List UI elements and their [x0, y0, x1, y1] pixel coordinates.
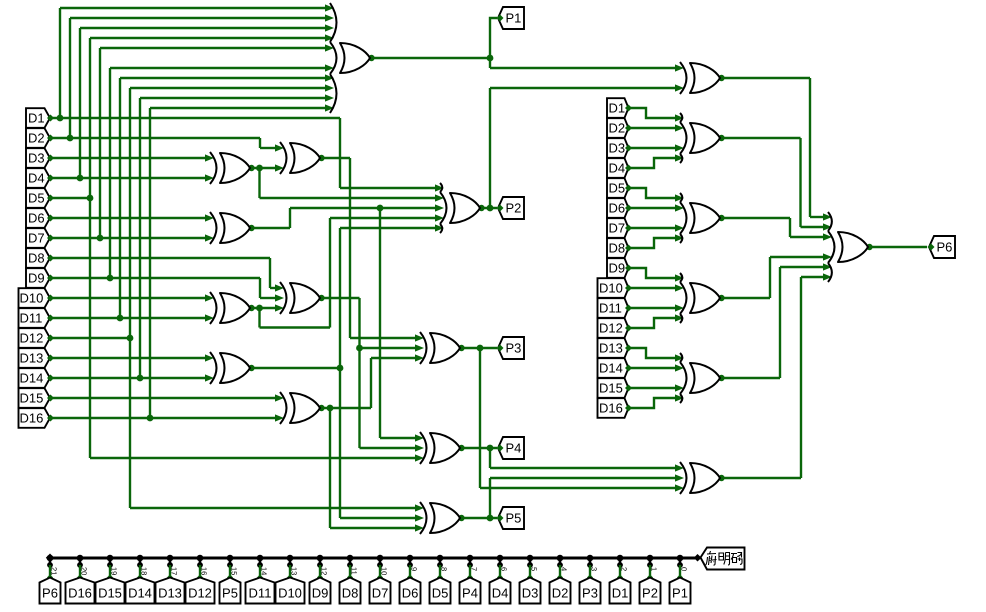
wire D14 straight: [629, 367, 677, 369]
pin D15 terminal pin: [107, 574, 113, 580]
XOR gate P3 (3-in): [430, 333, 460, 363]
wire C2 output: [320, 297, 360, 299]
wire D8 to x270: [50, 257, 270, 259]
wire D3 to gate A: [50, 157, 206, 159]
wire Eout rise x371: [370, 358, 372, 408]
svg-text:13: 13: [290, 567, 299, 575]
wire stub D6: [409, 565, 411, 577]
pin arrow final in3: [823, 233, 832, 240]
svg-text:14: 14: [260, 567, 269, 575]
wire stub D5: [439, 565, 441, 577]
wire R5 output: [720, 477, 801, 479]
junction D16/x150: [147, 415, 154, 422]
pin D12 terminal pin: [197, 574, 203, 580]
terminal port P1: [670, 578, 691, 604]
port D11 (right column): [598, 298, 629, 318]
XOR gate R2 (4-in): [690, 203, 720, 233]
output dot P5 gate: [458, 515, 464, 521]
svg-text:D7: D7: [372, 586, 389, 601]
port D9 (left column): [26, 268, 50, 288]
bus tap D15: [107, 555, 114, 562]
pin arrow R0 in1: [675, 64, 684, 71]
svg-text:D16: D16: [68, 586, 92, 601]
output dot P2 gate: [478, 205, 484, 211]
pin arrow P2 in3: [435, 204, 444, 211]
pin arrow D in1: [205, 354, 214, 361]
pin P4 terminal pin: [467, 574, 473, 580]
wire D11 riser x120: [119, 78, 121, 318]
wire C2out to P3 gate y348: [360, 347, 417, 349]
terminal port D12: [186, 578, 215, 604]
svg-text:D1: D1: [28, 111, 45, 126]
wire D9 riser x110: [109, 68, 111, 278]
XOR gate B: [220, 213, 250, 243]
bus tap D2: [557, 555, 564, 562]
junction Dout/x340: [337, 365, 344, 372]
svg-text:20: 20: [80, 567, 89, 575]
wire Cout drop x259: [258, 308, 260, 328]
wire D14 to gate D: [50, 377, 206, 379]
port D12 (left column): [19, 328, 51, 348]
bus tap D12: [197, 555, 204, 562]
pin arrow C in2: [205, 314, 214, 321]
svg-text:D14: D14: [599, 361, 623, 376]
wire D1 riser x60: [59, 8, 61, 118]
wire P2 riser x490: [489, 88, 491, 208]
wire A2out to P3 gate y338: [350, 337, 416, 339]
svg-text:D10: D10: [20, 291, 44, 306]
wire D1 to x340: [50, 117, 340, 119]
svg-text:D4: D4: [492, 586, 509, 601]
wire R3 output: [720, 297, 770, 299]
wire D12 to x130: [50, 337, 130, 339]
junction D5/x90: [87, 195, 94, 202]
wire P1 gate input y68: [110, 67, 326, 69]
wire D2 straight: [629, 127, 677, 129]
pin arrow P1 in10: [325, 104, 334, 111]
wire Dout to P5 gate y518: [340, 517, 416, 519]
pin arrow P2 in1: [435, 184, 444, 191]
wire P5 rise x490: [489, 478, 491, 518]
svg-text:D16: D16: [20, 411, 44, 426]
port D14 (right column): [598, 358, 629, 378]
wire P1 gate input y98: [140, 97, 326, 99]
wire R4 to final y267: [780, 266, 824, 268]
pin D9 terminal pin: [317, 574, 323, 580]
svg-text:P2: P2: [642, 586, 658, 601]
pin D9 pin: [47, 275, 54, 282]
wire D1 jog: [629, 108, 677, 118]
svg-text:P4: P4: [506, 441, 522, 456]
pin D7 pin: [47, 235, 54, 242]
svg-text:D13: D13: [599, 341, 623, 356]
port D13 (left column): [19, 348, 51, 368]
terminal port P3: [580, 578, 601, 604]
pin arrow final in1: [823, 213, 832, 220]
port P4: [498, 437, 524, 459]
wire R1 drop x800: [799, 138, 801, 227]
svg-text:D5: D5: [609, 181, 626, 196]
output dot gate R5: [718, 475, 724, 481]
pin D9 pin: [625, 265, 632, 272]
terminal port D16: [66, 578, 95, 604]
wire P3 output: [460, 347, 497, 349]
pin arrow P5 in2: [415, 514, 424, 521]
terminal port D7: [370, 578, 391, 604]
svg-text:P5: P5: [222, 586, 238, 601]
port D6 (right column): [607, 198, 629, 218]
wire D1 to P2 gate y188: [340, 187, 436, 189]
wire D11 to gate C: [50, 317, 206, 319]
pin arrow R in D12: [675, 314, 684, 321]
wire Dout column x340: [339, 228, 341, 518]
bus tap P5: [227, 555, 234, 562]
wire D output: [250, 367, 340, 369]
pin arrow A2 in1: [275, 144, 284, 151]
terminal port D4: [490, 578, 511, 604]
wire D16 jog: [629, 398, 677, 408]
wire D7 riser x100: [99, 48, 101, 238]
pin arrow R in D3: [675, 144, 684, 151]
pin arrow A in2: [205, 174, 214, 181]
junction P1 junction: [487, 55, 494, 62]
XOR gate R0: [690, 63, 720, 93]
pin arrow R5 in1: [675, 464, 684, 471]
junction D14/x140: [137, 375, 144, 382]
wire stub P3: [589, 565, 591, 577]
pin arrow B in1: [205, 214, 214, 221]
pin D16 pin: [47, 415, 54, 422]
svg-text:3: 3: [590, 567, 599, 571]
pin arrow P1 in5: [325, 44, 334, 51]
pin arrow P2 in2: [435, 194, 444, 201]
pin D6 pin: [625, 205, 632, 212]
wire stub D9: [319, 565, 321, 577]
port D4 (right column): [607, 158, 629, 178]
wire R2 drop x790: [789, 218, 791, 237]
svg-text:D9: D9: [609, 261, 626, 276]
svg-text:D13: D13: [158, 586, 182, 601]
port D5 (right column): [607, 178, 629, 198]
wire C output to C2: [250, 307, 276, 309]
output dot gate C: [248, 305, 254, 311]
wire P4 drop x490: [489, 448, 491, 468]
wire D15 straight: [629, 387, 677, 389]
pin arrow R in D1: [675, 114, 684, 121]
port D10 (right column): [598, 278, 629, 298]
junction D12/x130: [127, 335, 134, 342]
pin arrow R5 in2: [675, 474, 684, 481]
pin arrow P1 in8: [325, 84, 334, 91]
port D3 (right column): [607, 138, 629, 158]
svg-text:P3: P3: [582, 586, 598, 601]
port D8 (left column): [26, 248, 50, 268]
wire D15 to gate E: [50, 397, 276, 399]
pin D13 pin: [625, 345, 632, 352]
port P6: [929, 236, 955, 258]
pin arrow P2 in5: [435, 224, 444, 231]
bus tap P1: [677, 555, 684, 562]
pin arrow P4 in2: [415, 444, 424, 451]
pin D5 pin: [47, 195, 54, 202]
bus terminal pin: [694, 554, 702, 562]
pin P3 pin: [497, 345, 504, 352]
junction D2/x70: [67, 135, 74, 142]
port D9 (right column): [607, 258, 629, 278]
XOR gate P6 (6-in): [838, 232, 868, 262]
XOR gate P4 (3-in): [430, 433, 460, 463]
wire P1 to R0 gate y68: [490, 67, 676, 69]
wire stub P1: [679, 565, 681, 577]
wire D9 jog: [629, 268, 677, 278]
svg-text:D10: D10: [278, 586, 302, 601]
terminal port D11: [246, 578, 275, 604]
output dot P4 gate: [458, 445, 464, 451]
pin D1 pin: [625, 105, 632, 112]
wire D5 to x90: [50, 197, 90, 199]
wire R5 rise x801: [800, 277, 802, 478]
pin D1 terminal pin: [617, 574, 623, 580]
wire D5 column x90: [89, 38, 91, 458]
output dot gate A2: [318, 155, 324, 161]
wire P4 to R5 gate y468: [490, 467, 676, 469]
wire R0 output: [720, 77, 810, 79]
port D5 (left column): [26, 188, 50, 208]
wire P1 gate input y28: [80, 27, 326, 29]
wire Cout rise x330: [329, 218, 331, 328]
wire R1 output: [720, 137, 801, 139]
pin arrow final in2: [823, 223, 832, 230]
wire P1 gate input y78: [120, 77, 326, 79]
wire P5 output: [460, 517, 497, 519]
pin D4 terminal pin: [497, 574, 503, 580]
output dot gate C2: [318, 295, 324, 301]
pin arrow P1 in7: [325, 74, 334, 81]
port D14 (left column): [19, 368, 51, 388]
wire stub D13: [169, 565, 171, 577]
wire stub D3: [529, 565, 531, 577]
pin D2 pin: [625, 125, 632, 132]
output dot gate D: [248, 365, 254, 371]
pin D14 pin: [625, 365, 632, 372]
svg-text:D3: D3: [28, 151, 45, 166]
svg-text:P2: P2: [506, 201, 522, 216]
junction D4/x80: [77, 175, 84, 182]
wire D14 riser x140: [139, 98, 141, 378]
port D12 (right column): [598, 318, 629, 338]
svg-text:D11: D11: [20, 311, 43, 326]
bus tap P2: [647, 555, 654, 562]
pin D16 terminal pin: [77, 574, 83, 580]
wire P5 to R5 gate y478: [490, 477, 676, 479]
wire D10 to gate C: [50, 297, 206, 299]
wire Bout drop x380: [379, 208, 381, 438]
pin arrow C2 in2: [275, 294, 284, 301]
svg-text:D12: D12: [188, 586, 212, 601]
svg-text:D14: D14: [20, 371, 44, 386]
wire D3 straight: [629, 147, 677, 149]
svg-text:17: 17: [170, 567, 179, 575]
output dot gate R1: [718, 135, 724, 141]
pin P6 terminal pin: [47, 574, 53, 580]
pin D3 pin: [47, 155, 54, 162]
pin arrow P1 in9: [325, 94, 334, 101]
svg-text:D9: D9: [28, 271, 45, 286]
pin arrow R in D9: [675, 274, 684, 281]
junction P5 junction: [487, 515, 494, 522]
wire stub D16: [79, 565, 81, 577]
wire P6 output wire: [868, 246, 927, 248]
wire D12 column x130: [129, 88, 131, 508]
pin arrow C2 in1: [275, 284, 284, 291]
svg-text:D6: D6: [402, 586, 419, 601]
port D10 (left column): [19, 288, 51, 308]
svg-text:D7: D7: [609, 221, 626, 236]
wire D7 to gate B: [50, 237, 206, 239]
pin arrow final in4: [823, 253, 832, 260]
svg-text:D3: D3: [609, 141, 626, 156]
wire D12 jog: [629, 318, 677, 328]
wire D9 drop x260: [259, 278, 261, 298]
bus tap D11: [257, 555, 264, 562]
wire E output: [320, 407, 371, 409]
XOR gate D: [220, 353, 250, 383]
pin D14 pin: [47, 375, 54, 382]
junction Aout branch: [256, 165, 263, 172]
wire A2out drop x350: [349, 158, 351, 338]
pin D15 pin: [47, 395, 54, 402]
pin arrow R in D10: [675, 284, 684, 291]
label box (hai ming ma): [701, 548, 745, 570]
XOR gate E: [290, 393, 320, 423]
pin D8 pin: [47, 255, 54, 262]
terminal port D9: [310, 578, 331, 604]
bus tap D14: [137, 555, 144, 562]
wire stub D2: [559, 565, 561, 577]
wire D10 straight: [629, 287, 677, 289]
bus tap D3: [527, 555, 534, 562]
port P2: [498, 197, 524, 219]
svg-text:P3: P3: [506, 341, 522, 356]
wire D5 to P4 gate y458: [90, 457, 416, 459]
wire P2 to R0 gate y88: [490, 87, 676, 89]
pin arrow P3 in1: [415, 334, 424, 341]
svg-text:2: 2: [620, 567, 629, 571]
pin arrow E in2: [275, 414, 284, 421]
wire stub D15: [109, 565, 111, 577]
wire R2 output: [720, 217, 790, 219]
junction D1/x60: [57, 115, 64, 122]
pin arrow final in6: [823, 273, 832, 280]
svg-text:D14: D14: [128, 586, 152, 601]
svg-text:9: 9: [410, 567, 419, 571]
pin P2 terminal pin: [647, 574, 653, 580]
svg-text:D12: D12: [599, 321, 623, 336]
svg-text:15: 15: [230, 567, 239, 575]
wire D9 to C2 gate y298: [260, 297, 276, 299]
pin arrow P5 in1: [415, 504, 424, 511]
pin arrow R0 in2: [675, 84, 684, 91]
pin arrow E in1: [275, 394, 284, 401]
terminal port D14: [126, 578, 155, 604]
bus tap P6: [47, 555, 54, 562]
wire D13 to gate D: [50, 357, 206, 359]
XOR gate R3 (4-in): [690, 283, 720, 313]
wire P4 output: [460, 447, 497, 449]
port P1: [498, 7, 524, 29]
wire D2 jog down to y148: [259, 138, 261, 148]
svg-text:D2: D2: [609, 121, 626, 136]
port D2 (right column): [607, 118, 629, 138]
XOR gate R1 (4-in): [690, 123, 720, 153]
bus tap D9: [317, 555, 324, 562]
svg-text:0: 0: [680, 567, 689, 571]
svg-text:D8: D8: [609, 241, 626, 256]
pin arrow R in D16: [675, 394, 684, 401]
output dot gate E: [318, 405, 324, 411]
wire A2 output: [320, 157, 350, 159]
pin arrow R in D15: [675, 384, 684, 391]
svg-text:D8: D8: [28, 251, 45, 266]
pin arrow A in1: [205, 154, 214, 161]
wire Bout rise x290: [289, 208, 291, 228]
terminal port D15: [96, 578, 125, 604]
wire Cout jog y327: [260, 326, 331, 328]
wire P1 gate input y88: [130, 87, 326, 89]
svg-text:18: 18: [140, 567, 149, 575]
svg-text:D5: D5: [432, 586, 449, 601]
svg-text:D15: D15: [599, 381, 623, 396]
output dot P3 gate: [458, 345, 464, 351]
svg-text:1: 1: [650, 567, 659, 571]
terminal port D6: [400, 578, 421, 604]
svg-text:16: 16: [200, 567, 209, 575]
bus tap D8: [347, 555, 354, 562]
wire Eout to P3 gate y358: [371, 357, 416, 359]
pin arrow P5 in3: [415, 524, 424, 531]
XOR gate P1 (10-in): [340, 43, 370, 73]
port D2 (left column): [26, 128, 50, 148]
wire Aout drop x259: [258, 168, 260, 198]
pin arrow B in2: [205, 234, 214, 241]
pin D5 pin: [625, 185, 632, 192]
terminal port D10: [276, 578, 305, 604]
wire D5 jog: [629, 188, 677, 198]
pin D11 pin: [625, 305, 632, 312]
wire P1 riser to port: [490, 18, 497, 58]
pin P1 pin: [497, 15, 504, 22]
pin D13 pin: [47, 355, 54, 362]
output dot gate R4: [718, 375, 724, 381]
port D15 (left column): [19, 388, 51, 408]
wire B output: [250, 227, 290, 229]
junction Eout/x330: [327, 405, 334, 412]
terminal port P4: [460, 578, 481, 604]
svg-text:P6: P6: [937, 240, 953, 255]
svg-text:D7: D7: [28, 231, 45, 246]
wire D16 riser x150: [149, 108, 151, 418]
wire D13 jog: [629, 348, 677, 358]
bus tap D1: [617, 555, 624, 562]
wire A output to A2: [250, 167, 276, 169]
pin D7 terminal pin: [377, 574, 383, 580]
pin arrow P4 in1: [415, 434, 424, 441]
port P3: [498, 337, 524, 359]
wire D16 to gate E: [50, 417, 276, 419]
pin arrow P3 in3: [415, 354, 424, 361]
XOR gate A2: [290, 143, 320, 173]
wire stub D10: [289, 565, 291, 577]
